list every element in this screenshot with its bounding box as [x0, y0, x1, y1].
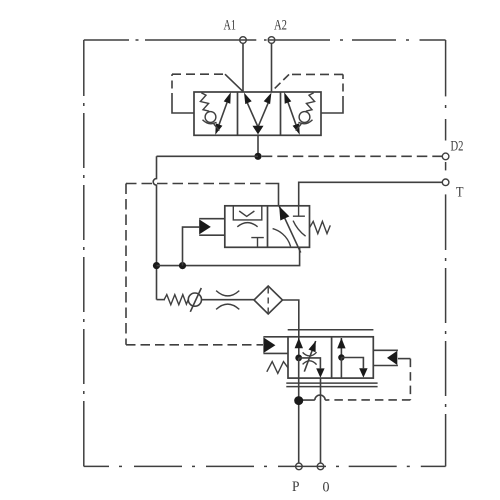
- wire node to left riser: [157, 155, 259, 157]
- node junction below V1: [254, 153, 261, 160]
- valve V1 left position arrow: [215, 92, 231, 135]
- wire V1 bottom to node: [257, 134, 259, 156]
- valve V3 right cell inlet arrow: [337, 338, 345, 358]
- pilot line D2 (dashed): [262, 155, 443, 157]
- valve V3 left cell inlet arrow: [295, 337, 303, 358]
- port circle T: [442, 179, 449, 186]
- valve V2 body (pressure reducing valve): [225, 206, 310, 248]
- node pilot branch: [179, 262, 186, 269]
- spring valve V3 left: [267, 362, 288, 374]
- filter F1 diamond: [254, 286, 283, 314]
- wire pilot branch up: [183, 227, 200, 266]
- svg-text:T: T: [456, 185, 464, 201]
- wire CV1 to orifice: [202, 299, 255, 301]
- valve V2 drain T symbol: [251, 238, 263, 248]
- valve V2 venturi inner box: [233, 206, 261, 220]
- wire A2 drop: [271, 43, 273, 92]
- wire filter to valve V3: [283, 300, 299, 337]
- valve V2 spring right: [310, 221, 331, 233]
- pilot symbol valve V2 (triangle in box): [199, 219, 225, 236]
- valve V1 left pilot line (dashed loop): [172, 74, 243, 113]
- valve V1 right position arrow: [284, 92, 300, 135]
- valve V1 right position spring and ball: [296, 93, 315, 131]
- pilot dashed box top: [126, 183, 272, 185]
- port circle P: [296, 463, 303, 470]
- valve V3 right cell branch arrow: [341, 358, 367, 378]
- node on left riser: [153, 262, 160, 269]
- check valve CV1 ball: [188, 293, 201, 306]
- port circle O: [317, 463, 324, 470]
- valve V2 curved flow path: [273, 229, 291, 247]
- port circle A1: [240, 37, 247, 44]
- port circle A2: [268, 37, 275, 44]
- valve V2 adjust arrow: [279, 206, 301, 252]
- valve V3 right cell stem down: [340, 358, 342, 379]
- check valve CV1 seat line: [190, 288, 201, 312]
- wire O line down: [320, 378, 322, 463]
- svg-text:A1: A1: [224, 18, 237, 34]
- valve V1 left position spring and ball: [200, 93, 219, 131]
- node valve V3 right cell: [338, 354, 344, 360]
- svg-text:0: 0: [323, 480, 330, 496]
- wire A1 drop: [242, 43, 244, 92]
- pilot dashed box bottom: [126, 344, 263, 346]
- pilot symbol valve V3 right (triangle in box): [373, 350, 398, 365]
- pilot symbol valve V3 left (triangle in box): [263, 337, 288, 354]
- valve V2 seat stem: [293, 206, 305, 216]
- valve V1 center position flow arrows: [244, 93, 271, 135]
- valve V3 rail lines bottom: [286, 382, 377, 384]
- wire V3 down to node P: [298, 358, 300, 463]
- valve V3 body (proportional flow valve): [288, 337, 373, 378]
- svg-text:D2: D2: [451, 139, 464, 155]
- wire left riser with hop: [153, 156, 156, 299]
- enclosure border top (dash-dot): [84, 39, 446, 41]
- valve V3 rail line top: [288, 329, 374, 331]
- valve V3 variable throttle arcs: [303, 352, 317, 356]
- valve V1 right pilot line (dashed loop): [272, 74, 343, 113]
- wire T port line: [299, 182, 443, 206]
- wire riser corner to check valve row: [157, 299, 166, 301]
- svg-text:P: P: [292, 479, 300, 495]
- orifice restriction arcs: [216, 291, 239, 296]
- enclosure border bottom (dash-dot): [84, 465, 446, 467]
- wire horizontal feed to valve V2 bottom: [157, 247, 300, 265]
- port circle D2: [442, 153, 449, 160]
- valve V1 body (top 3-position valve): [194, 92, 321, 135]
- enclosure border right (dash-dot): [445, 40, 447, 466]
- pilot dashed box left: [125, 184, 127, 345]
- spring of check valve CV1: [164, 295, 188, 305]
- valve V2 venturi lower profile: [237, 223, 257, 227]
- enclosure border left (dash-dot): [83, 40, 85, 466]
- valve V3 throttle adjust arrow: [304, 341, 315, 372]
- node valve V3 left cell: [295, 355, 302, 362]
- pilot line valve V3 right (dashed): [303, 359, 410, 401]
- node P branch (big): [294, 396, 303, 405]
- valve V3 left cell branch to outlet arrow: [299, 358, 325, 378]
- filter F1 mesh dashed: [267, 288, 269, 313]
- valve V2 venturi upper profile: [239, 211, 254, 216]
- svg-text:A2: A2: [274, 18, 287, 34]
